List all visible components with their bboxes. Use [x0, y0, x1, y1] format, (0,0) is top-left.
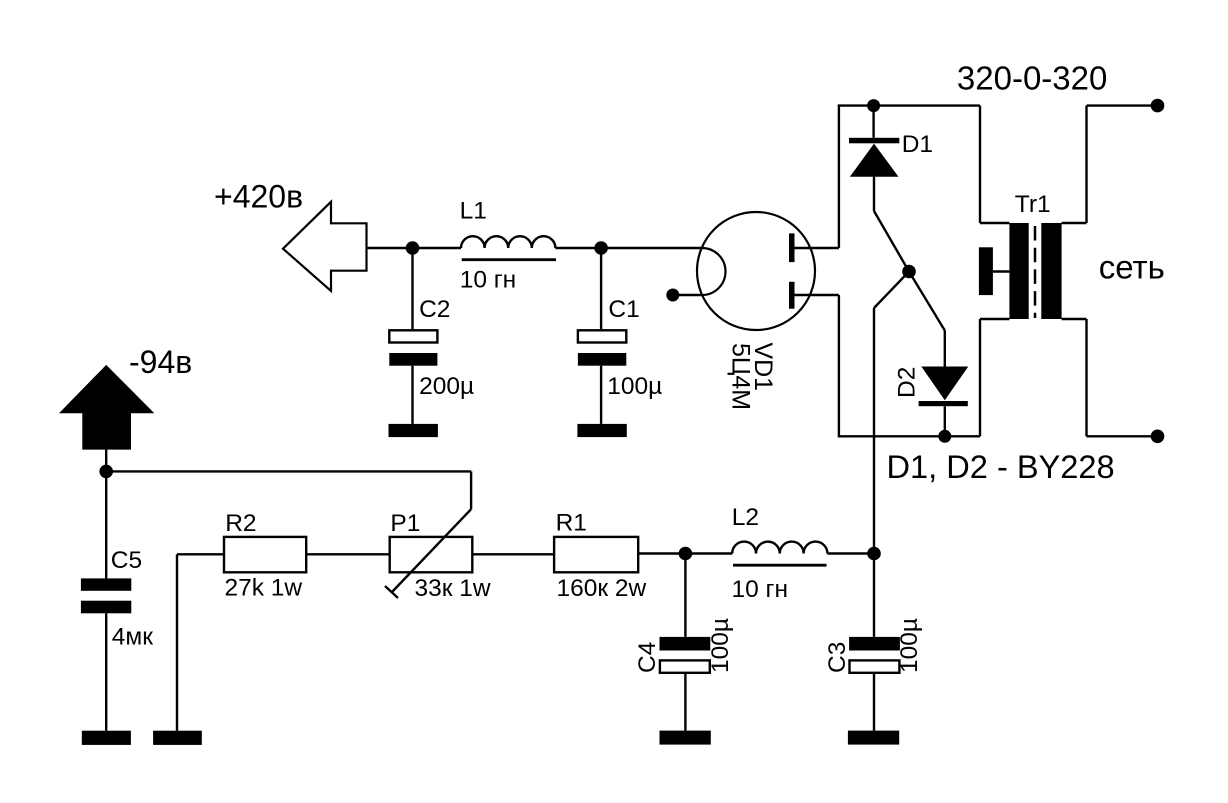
svg-text:сеть: сеть: [1099, 249, 1165, 286]
node D1 top: [867, 99, 880, 112]
svg-text:R2: R2: [225, 510, 256, 537]
wire anode 2 lead: [795, 294, 839, 296]
node C4 junction: [679, 547, 693, 561]
wire L1 to tube: [555, 247, 702, 249]
svg-text:Tr1: Tr1: [1015, 191, 1051, 218]
resistor R2: [224, 537, 306, 572]
wire arrow to L1: [367, 247, 462, 249]
wire bias rail: [106, 470, 471, 472]
svg-text:320-0-320: 320-0-320: [957, 60, 1107, 97]
wire L2 to C3 node: [827, 552, 874, 554]
filament terminal dot: [666, 289, 679, 302]
svg-text:100µ: 100µ: [607, 373, 662, 400]
wire anode 1 lead: [795, 247, 839, 249]
svg-text:160к 2w: 160к 2w: [557, 575, 647, 602]
node bias junction: [99, 465, 113, 479]
svg-text:D1, D2 - BY228: D1, D2 - BY228: [887, 448, 1115, 485]
terminal mains top: [1151, 99, 1165, 113]
tube VD1 filament arc: [702, 248, 726, 295]
wire R2 left to ground: [177, 554, 224, 730]
capacitor C3: [849, 554, 900, 731]
tube VD1 envelope: [697, 212, 815, 330]
svg-text:5Ц4М: 5Ц4М: [727, 343, 755, 410]
svg-text:D1: D1: [902, 131, 933, 158]
svg-text:L1: L1: [460, 198, 487, 225]
wire bottom rail: [838, 435, 980, 437]
svg-text:10 гн: 10 гн: [732, 576, 789, 603]
capacitor C4: [660, 554, 711, 731]
svg-text:C3: C3: [824, 642, 851, 673]
wire mains bottom: [1087, 319, 1158, 436]
svg-text:R1: R1: [556, 510, 587, 537]
ground bar C2: [389, 424, 438, 437]
output arrow +420в: [283, 202, 367, 291]
svg-text:100µ: 100µ: [896, 618, 923, 673]
svg-text:-94в: -94в: [129, 344, 192, 380]
diode D1: [849, 106, 909, 272]
node C2 junction: [406, 241, 420, 255]
svg-text:33к 1w: 33к 1w: [415, 575, 491, 602]
inductor L1: [461, 236, 555, 248]
wire anode 2 to bottom rail: [838, 295, 840, 436]
inductor L1 underline: [462, 258, 556, 261]
svg-text:4мк: 4мк: [112, 624, 153, 651]
svg-text:200µ: 200µ: [419, 373, 474, 400]
wire to P1 wiper: [470, 471, 472, 509]
svg-text:10 гн: 10 гн: [460, 267, 517, 294]
capacitor C1: [578, 248, 626, 424]
resistor R1: [554, 537, 638, 572]
wire R1 to L2: [638, 552, 732, 554]
svg-text:C1: C1: [608, 296, 639, 323]
wire R2 to P1: [306, 553, 390, 555]
diode D2: [909, 272, 968, 437]
svg-text:C5: C5: [111, 547, 142, 574]
node C3 junction: [867, 547, 881, 561]
wire center tap down: [874, 272, 909, 554]
ground bar C5: [82, 731, 131, 745]
svg-text:C4: C4: [634, 642, 661, 673]
inductor L2 underline: [733, 564, 827, 567]
ground bar C4: [660, 731, 711, 745]
capacitor C5: [81, 578, 131, 730]
node C1 junction: [594, 241, 608, 255]
svg-text:27k 1w: 27k 1w: [225, 575, 303, 602]
node D2 bottom: [938, 430, 951, 443]
svg-text:+420в: +420в: [214, 178, 303, 214]
wire top rail: [838, 104, 980, 106]
bias arrow -94в: [59, 365, 154, 579]
wire filament lead: [673, 294, 702, 296]
ground bar C3: [848, 731, 899, 745]
ground bar R2: [153, 731, 202, 745]
capacitor C2: [389, 248, 437, 424]
svg-text:100µ: 100µ: [707, 618, 734, 673]
ground bar C1: [577, 424, 626, 437]
svg-text:D2: D2: [894, 367, 921, 398]
svg-text:P1: P1: [390, 510, 420, 537]
terminal mains bottom: [1151, 430, 1165, 444]
tube VD1 anode 1: [789, 233, 795, 262]
svg-text:L2: L2: [732, 504, 759, 531]
tube VD1 anode 2: [789, 282, 795, 309]
inductor L2: [732, 542, 827, 554]
wire anode 1 to top rail: [838, 106, 840, 248]
wire mains top: [1087, 106, 1158, 223]
node center tap junction: [902, 265, 916, 279]
transformer Tr1: [979, 106, 1087, 437]
potentiometer P1: [385, 509, 472, 598]
wire P1 to R1: [472, 553, 554, 555]
svg-text:C2: C2: [419, 296, 450, 323]
